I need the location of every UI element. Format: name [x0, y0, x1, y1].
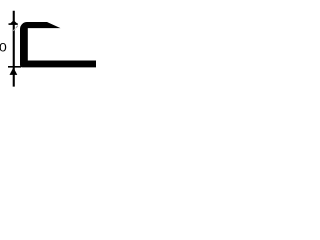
dimension line — [13, 11, 15, 87]
arrowhead top — [10, 20, 18, 24]
extension line top — [9, 23, 18, 25]
ghost arc mark — [13, 29, 15, 31]
svg-text:0: 0 — [0, 40, 7, 54]
profile channel cross-section — [20, 22, 96, 67]
ghost arc mark 2 — [16, 26, 18, 28]
extension line bottom — [8, 66, 21, 68]
arrowhead bottom — [10, 68, 18, 75]
